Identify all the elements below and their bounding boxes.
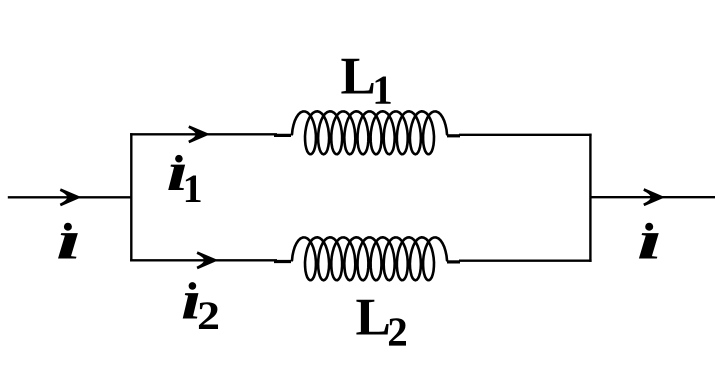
svg-text:ı: ı bbox=[637, 210, 663, 271]
wire: stub tick at L1 left terminal bbox=[274, 134, 291, 137]
label i (input current) bbox=[56, 210, 82, 271]
dot of label i1 bbox=[175, 155, 183, 163]
inductor L2 coil bbox=[292, 237, 447, 280]
wire: top branch right segment bbox=[459, 134, 592, 136]
inductor L1 coil bbox=[292, 111, 447, 154]
label L2 bbox=[356, 288, 391, 346]
wire: bottom branch right segment bbox=[459, 260, 592, 262]
label i (output current) bbox=[637, 210, 663, 271]
label i1 bbox=[166, 141, 188, 202]
svg-text:L: L bbox=[341, 48, 376, 106]
dot of input label i bbox=[64, 223, 72, 231]
arrowhead: output current direction bbox=[644, 190, 662, 205]
node B: right junction vertical wire bbox=[589, 134, 591, 262]
dot of label i2 bbox=[189, 282, 197, 290]
arrowhead: branch current i2 bbox=[197, 253, 215, 268]
arrowhead: input current direction bbox=[60, 190, 78, 205]
wire: top branch left segment bbox=[130, 133, 277, 135]
svg-text:L: L bbox=[356, 288, 391, 346]
wire: stub tick at L1 right terminal bbox=[447, 134, 460, 137]
label L1 bbox=[341, 48, 376, 106]
wire: right output lead bbox=[590, 196, 715, 198]
dot of output label i bbox=[645, 223, 653, 231]
svg-text:2: 2 bbox=[197, 294, 220, 338]
wire: bottom branch left segment bbox=[130, 259, 277, 261]
wire: stub tick at L2 right terminal bbox=[447, 260, 460, 263]
arrowhead: branch current i1 bbox=[189, 127, 207, 142]
label i2 bbox=[181, 271, 202, 332]
wire: left input lead bbox=[8, 196, 132, 198]
svg-text:ı: ı bbox=[56, 210, 82, 271]
node A: left junction vertical wire bbox=[130, 133, 132, 261]
wire: stub tick at L2 left terminal bbox=[274, 260, 291, 263]
svg-text:2: 2 bbox=[387, 308, 408, 354]
svg-text:1: 1 bbox=[183, 166, 203, 211]
svg-text:1: 1 bbox=[372, 67, 393, 113]
